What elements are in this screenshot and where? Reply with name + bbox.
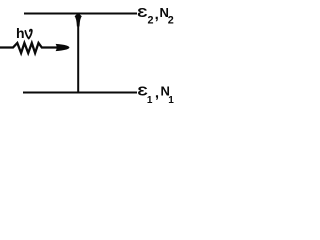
svg-text:,: , [155, 6, 159, 23]
transition arrow shaft [77, 20, 79, 93]
svg-text:1: 1 [168, 95, 174, 106]
lower energy level line E1 [23, 92, 137, 94]
svg-text:1: 1 [147, 95, 153, 106]
svg-text:h: h [16, 25, 25, 41]
upper energy level line E2 [24, 13, 137, 15]
svg-text:,: , [155, 84, 159, 101]
svg-text:2: 2 [168, 15, 174, 27]
svg-text:2: 2 [148, 15, 154, 27]
transition arrow head [75, 13, 82, 27]
photon arrow head [56, 44, 70, 51]
photon wavy line [0, 43, 57, 53]
nu glyph (hand-drawn style) [25, 30, 32, 39]
